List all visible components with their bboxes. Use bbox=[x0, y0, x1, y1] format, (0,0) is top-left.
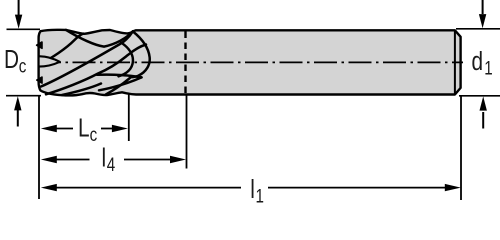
extension line bottom-right (d1) bbox=[459, 95, 500, 97]
flute helix line 1 (long main diagonal) bbox=[41, 31, 133, 86]
svg-text:l: l bbox=[250, 175, 255, 204]
svg-text:1: 1 bbox=[484, 57, 492, 79]
svg-text:c: c bbox=[90, 123, 98, 145]
label l4 bbox=[102, 143, 116, 175]
end tooth upper bbox=[37, 42, 42, 48]
svg-text:l: l bbox=[102, 143, 107, 172]
svg-text:L: L bbox=[78, 113, 90, 142]
flute helix line 2 (upper-left diagonal) bbox=[40, 34, 84, 64]
extension line top-right (d1) bbox=[456, 28, 500, 30]
svg-text:1: 1 bbox=[256, 185, 264, 207]
flute upper leaf edge bbox=[66, 30, 133, 47]
arrow d1 top (pointing down) bbox=[479, 0, 486, 28]
tool body (end mill silhouette with chamfered shank end) bbox=[39, 30, 461, 96]
svg-text:D: D bbox=[4, 45, 19, 74]
arrow Dc top (pointing down) bbox=[15, 0, 22, 29]
label l1 bbox=[250, 175, 264, 207]
dimension line l4 bbox=[41, 156, 186, 163]
flute mid wedge lower edge bbox=[99, 77, 142, 90]
flute lower short diagonal bbox=[62, 84, 101, 96]
svg-text:c: c bbox=[19, 55, 27, 77]
label Dc bbox=[4, 45, 27, 77]
label Lc bbox=[78, 113, 98, 145]
extension line vertical at x=461 (l1 right) bbox=[460, 96, 462, 200]
dashed line at l4 boundary bbox=[184, 32, 186, 94]
arrow Dc bottom (pointing up) bbox=[14, 96, 21, 126]
extension line top-left (Dc) bbox=[7, 28, 41, 30]
centerline (dash-dot axis) bbox=[46, 61, 463, 63]
flute runout big C-curve bbox=[106, 31, 150, 94]
dimension line Lc bbox=[41, 125, 128, 132]
dimension line l1 bbox=[41, 184, 461, 191]
flute helix line 3 (lower long diagonal) bbox=[46, 45, 146, 95]
arrow d1 bottom (pointing up) bbox=[480, 96, 487, 128]
flute runout inner curve bbox=[119, 43, 133, 77]
shank end chamfer inner line bbox=[454, 31, 456, 94]
extension line bottom-left (Dc) bbox=[6, 95, 41, 97]
svg-text:4: 4 bbox=[107, 153, 116, 175]
end tooth beak at centerline bbox=[39, 56, 60, 66]
extension line vertical at x=39 (left datum) bbox=[38, 96, 40, 199]
extension line vertical at x=186.5 (l4) bbox=[186, 95, 188, 169]
label d1 bbox=[472, 47, 493, 79]
extension line vertical at x=128.8 (Lc) bbox=[128, 95, 130, 142]
svg-text:d: d bbox=[472, 47, 484, 76]
flute mid wedge upper edge bbox=[97, 75, 142, 78]
end tooth lower bbox=[37, 77, 42, 83]
